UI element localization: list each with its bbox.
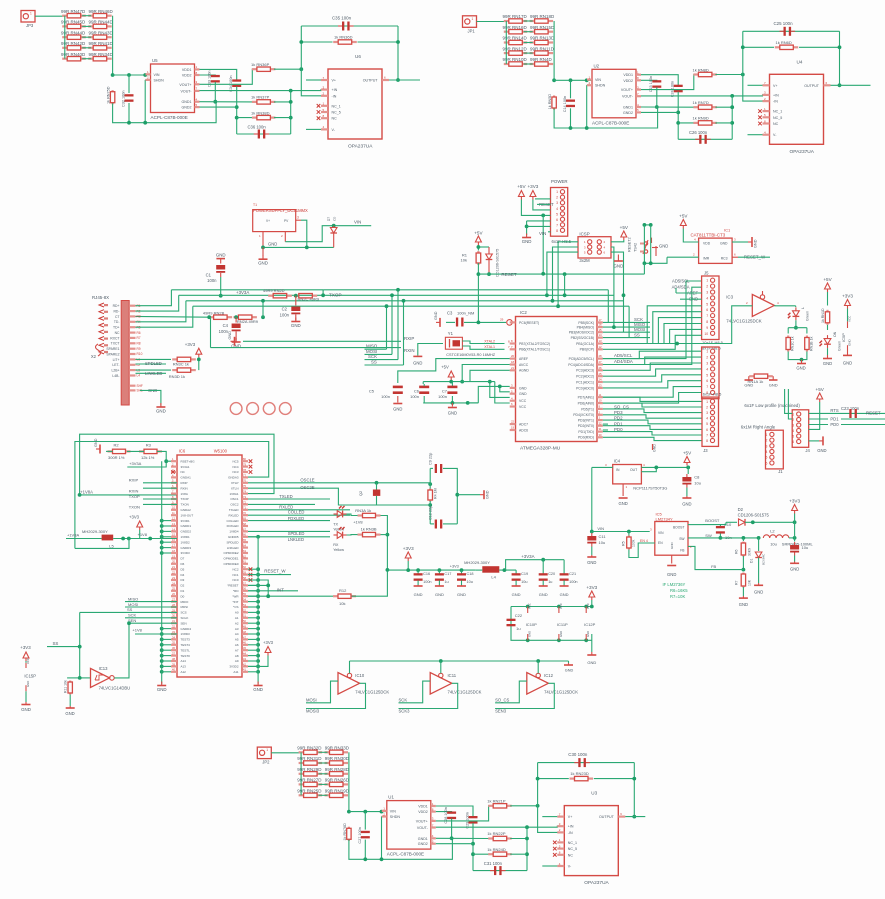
svg-text:VDD2: VDD2: [182, 74, 192, 78]
svg-text:C16: C16: [423, 572, 430, 576]
svg-text:GND: GND: [512, 592, 521, 597]
svg-text:GND: GND: [823, 361, 832, 366]
svg-text:12k 1%: 12k 1%: [141, 455, 155, 460]
svg-text:ACPL-C87B-000E: ACPL-C87B-000E: [151, 115, 188, 120]
svg-text:1k RN5D: 1k RN5D: [548, 94, 552, 110]
svg-text:XTAL2: XTAL2: [484, 339, 495, 343]
svg-text:GND2: GND2: [182, 106, 192, 110]
svg-text:PD1: PD1: [830, 416, 839, 421]
svg-text:VDD2: VDD2: [418, 810, 428, 814]
svg-text:GND: GND: [670, 542, 674, 550]
svg-text:D1: D1: [181, 589, 185, 593]
svg-text:GND: GND: [565, 669, 574, 673]
svg-text:IC5P: IC5P: [841, 333, 846, 342]
svg-text:OUT: OUT: [630, 468, 637, 472]
svg-text:NC5: NC5: [232, 459, 238, 463]
svg-text:GND: GND: [228, 331, 232, 340]
svg-text:PC5(ADC5/SCL): PC5(ADC5/SCL): [569, 357, 594, 361]
svg-text:3: 3: [706, 362, 708, 366]
svg-text:3: 3: [297, 216, 299, 220]
svg-text:RX: RX: [333, 543, 339, 547]
svg-text:BOOST: BOOST: [673, 526, 685, 530]
svg-text:20: 20: [511, 354, 515, 358]
svg-text:+1V8: +1V8: [353, 520, 363, 525]
svg-text:A7: A7: [235, 648, 239, 652]
svg-text:1k RN76D: 1k RN76D: [343, 823, 347, 841]
svg-text:1k RN3B: 1k RN3B: [361, 527, 377, 532]
svg-text:GND: GND: [560, 592, 569, 597]
svg-text:27: 27: [599, 360, 603, 364]
svg-text:24: 24: [599, 378, 603, 382]
svg-text:C5: C5: [369, 389, 375, 394]
svg-text:+3V3: +3V3: [789, 499, 800, 504]
svg-text:GND: GND: [682, 502, 691, 507]
svg-text:GND: GND: [586, 631, 590, 637]
svg-text:7: 7: [706, 314, 708, 318]
svg-text:14: 14: [599, 333, 603, 337]
svg-text:OPA237UA: OPA237UA: [348, 144, 373, 150]
svg-text:SCS: SCS: [181, 611, 187, 615]
svg-text:SCK3: SCK3: [399, 709, 411, 714]
svg-text:R2: R2: [114, 443, 120, 448]
svg-text:CSTCE16M0V53-R0 16MHZ: CSTCE16M0V53-R0 16MHZ: [446, 353, 495, 357]
svg-text:R10: R10: [137, 352, 143, 356]
svg-text:LM2734Y: LM2734Y: [656, 517, 673, 522]
svg-text:GND: GND: [156, 409, 166, 414]
svg-text:GND: GND: [614, 264, 624, 269]
svg-text:VIN: VIN: [539, 231, 546, 236]
svg-text:8: 8: [706, 439, 708, 443]
svg-text:+5V: +5V: [823, 277, 832, 282]
svg-text:COLLED: COLLED: [288, 510, 305, 515]
svg-text:SPARE1: SPARE1: [106, 347, 119, 351]
svg-text:6: 6: [706, 428, 708, 432]
svg-text:AREF: AREF: [519, 357, 528, 361]
svg-text:*INT: *INT: [233, 600, 239, 604]
svg-text:R5: R5: [622, 541, 626, 546]
svg-text:MDIO: MDIO: [181, 600, 189, 604]
svg-text:D7: D7: [327, 217, 331, 221]
svg-text:MH2029-300Y: MH2029-300Y: [464, 560, 490, 565]
svg-text:C20: C20: [548, 572, 555, 576]
svg-text:U3: U3: [591, 791, 597, 796]
svg-text:1: 1: [766, 433, 768, 437]
svg-text:PC4(ADC4/SDA): PC4(ADC4/SDA): [568, 363, 594, 367]
svg-text:RD-: RD-: [113, 310, 119, 314]
svg-text:VIN: VIN: [597, 526, 604, 531]
svg-text:GNDD5: GNDD5: [228, 535, 239, 539]
svg-text:L4B-: L4B-: [112, 374, 119, 378]
svg-text:10k: 10k: [461, 258, 467, 263]
svg-text:D6: D6: [181, 562, 185, 566]
svg-text:OSC2E: OSC2E: [300, 485, 314, 490]
svg-text:PD1(TXD): PD1(TXD): [578, 430, 594, 434]
svg-text:OPA237UA: OPA237UA: [790, 149, 815, 155]
svg-text:49R9 RN2D: 49R9 RN2D: [263, 288, 285, 293]
svg-text:PB6(XTAL1/TOSC1): PB6(XTAL1/TOSC1): [519, 348, 550, 352]
svg-text:C11: C11: [599, 534, 607, 539]
svg-text:IC3: IC3: [726, 295, 733, 300]
svg-text:PD2: PD2: [614, 416, 623, 421]
svg-text:R8: R8: [137, 342, 141, 346]
svg-text:GND: GND: [667, 572, 676, 577]
svg-text:TXOP: TXOP: [129, 494, 140, 499]
svg-text:GND: GND: [519, 392, 527, 396]
svg-text:100k: 100k: [632, 539, 636, 547]
svg-text:NC: NC: [332, 117, 338, 121]
svg-text:+5V: +5V: [474, 231, 483, 236]
svg-text:D2: D2: [738, 507, 744, 512]
svg-text:J3: J3: [703, 448, 708, 453]
svg-text:GND: GND: [587, 660, 596, 665]
svg-text:VOUT-: VOUT-: [181, 89, 193, 93]
svg-text:SS: SS: [634, 332, 640, 337]
svg-text:6x1F-H8.5: 6x1F-H8.5: [703, 392, 722, 397]
svg-text:POWERSUPPLY_DC21MMX: POWERSUPPLY_DC21MMX: [253, 208, 308, 213]
svg-text:5: 5: [792, 435, 794, 439]
svg-text:2: 2: [556, 196, 558, 200]
svg-text:C7: C7: [442, 389, 448, 394]
svg-text:GND: GND: [486, 490, 490, 499]
svg-text:GND1: GND1: [182, 100, 192, 104]
svg-text:RN1C 1k: RN1C 1k: [791, 336, 795, 351]
svg-text:FDXLED: FDXLED: [227, 524, 240, 528]
svg-text:5: 5: [556, 212, 558, 216]
svg-text:RESET2: RESET2: [628, 237, 632, 252]
svg-text:IC10: IC10: [355, 673, 365, 678]
svg-text:NC_5: NC_5: [332, 111, 341, 115]
svg-text:+3V3A: +3V3A: [236, 290, 249, 295]
svg-text:1k RN7D: 1k RN7D: [693, 100, 709, 105]
svg-text:10: 10: [704, 332, 708, 336]
svg-text:GND: GND: [528, 631, 532, 637]
svg-text:3: 3: [706, 411, 708, 415]
svg-text:TXON: TXON: [129, 505, 140, 510]
svg-text:VCC: VCC: [528, 603, 532, 609]
svg-text:D5: D5: [181, 567, 185, 571]
svg-text:3x2M: 3x2M: [579, 258, 590, 263]
svg-text:RD+: RD+: [113, 304, 120, 308]
svg-text:D1: D1: [750, 559, 754, 563]
svg-text:11: 11: [599, 393, 602, 397]
svg-text:RN3A 1k: RN3A 1k: [355, 508, 371, 513]
svg-text:MISO: MISO: [128, 596, 138, 601]
svg-text:SW: SW: [679, 537, 685, 541]
svg-text:SEN: SEN: [181, 621, 187, 625]
svg-text:C22: C22: [515, 613, 523, 618]
svg-text:74LVC1G125DCK: 74LVC1G125DCK: [355, 690, 389, 695]
svg-text:PD1: PD1: [614, 421, 623, 426]
svg-text:SW: SW: [705, 533, 712, 538]
svg-text:GND: GND: [157, 687, 167, 692]
svg-text:TEST4: TEST4: [181, 643, 191, 647]
svg-text:A13: A13: [181, 665, 187, 669]
svg-text:1k RN75D: 1k RN75D: [107, 86, 111, 104]
svg-text:NC: NC: [568, 853, 574, 857]
svg-text:RESET: RESET: [501, 272, 517, 277]
svg-text:RXLED: RXLED: [228, 513, 239, 517]
svg-text:RN3D 1k: RN3D 1k: [169, 374, 185, 379]
svg-text:R7: R7: [735, 580, 739, 585]
svg-text:R11 10k: R11 10k: [64, 680, 68, 693]
svg-text:R9: R9: [137, 347, 141, 351]
svg-text:GND: GND: [754, 239, 758, 248]
svg-text:L2B+: L2B+: [111, 369, 119, 373]
svg-text:NC_1: NC_1: [773, 110, 782, 114]
svg-text:ATMEGA328P-MU: ATMEGA328P-MU: [520, 446, 561, 452]
svg-text:10u: 10u: [694, 481, 701, 486]
svg-text:U2: U2: [594, 63, 600, 68]
svg-text:OUTPUT: OUTPUT: [363, 79, 379, 83]
svg-text:PB1(OC1A): PB1(OC1A): [576, 342, 594, 346]
svg-text:PD2(INT0): PD2(INT0): [578, 424, 594, 428]
svg-text:1k RN22P: 1k RN22P: [487, 831, 506, 836]
svg-text:D7: D7: [181, 557, 185, 561]
svg-text:L4: L4: [137, 374, 141, 378]
svg-text:J4: J4: [805, 448, 810, 453]
svg-text:32: 32: [599, 421, 603, 425]
svg-text:VCC: VCC: [586, 603, 590, 609]
svg-text:1V8D2: 1V8D2: [181, 540, 191, 544]
svg-text:+3V3: +3V3: [129, 515, 140, 520]
svg-text:10u: 10u: [599, 540, 606, 545]
svg-text:AD5/SCL: AD5/SCL: [672, 279, 690, 284]
svg-text:1k RN8D: 1k RN8D: [693, 67, 709, 72]
svg-text:-IN: -IN: [568, 831, 573, 835]
svg-text:PD5(T1): PD5(T1): [581, 407, 594, 411]
svg-text:5: 5: [766, 456, 768, 460]
svg-text:XTLP: XTLP: [231, 481, 239, 485]
svg-text:7: 7: [706, 433, 708, 437]
svg-text:C25 100n: C25 100n: [774, 21, 794, 26]
svg-text:1k RN36P: 1k RN36P: [251, 62, 270, 67]
svg-text:GND2: GND2: [623, 111, 633, 115]
svg-text:RSET+BG: RSET+BG: [181, 459, 196, 463]
svg-text:2: 2: [706, 285, 708, 289]
svg-text:6x1M Right Angle: 6x1M Right Angle: [741, 425, 776, 430]
svg-text:+5V: +5V: [441, 365, 449, 370]
svg-text:Yellow: Yellow: [333, 548, 344, 552]
svg-text:16: 16: [599, 323, 603, 327]
svg-text:ADC7: ADC7: [519, 423, 528, 427]
svg-text:300R 1%: 300R 1%: [108, 455, 125, 460]
svg-text:10u: 10u: [770, 542, 777, 547]
svg-text:D2: D2: [181, 584, 185, 588]
svg-text:+IN: +IN: [773, 93, 779, 97]
svg-text:MH2029-300Y: MH2029-300Y: [82, 529, 108, 534]
svg-text:GND: GND: [790, 567, 799, 572]
svg-text:SEN3: SEN3: [495, 709, 507, 714]
svg-text:A6: A6: [235, 643, 239, 647]
svg-text:3V3A1: 3V3A1: [181, 465, 190, 469]
svg-text:1: 1: [30, 12, 32, 16]
svg-text:VCC: VCC: [559, 603, 563, 609]
svg-text:+5V: +5V: [816, 387, 825, 392]
svg-text:BZX84C: BZX84C: [762, 553, 766, 565]
svg-text:GNDD1: GNDD1: [181, 524, 192, 528]
svg-text:R6=16K5: R6=16K5: [670, 588, 688, 593]
svg-text:GND: GND: [754, 590, 763, 595]
svg-text:AGND: AGND: [519, 369, 529, 373]
svg-text:OSC1: OSC1: [230, 497, 239, 501]
svg-text:PC2(ADC2): PC2(ADC2): [576, 375, 594, 379]
svg-text:+5V: +5V: [620, 225, 629, 230]
svg-text:+3V3: +3V3: [450, 565, 459, 569]
svg-text:MOSI3: MOSI3: [306, 709, 320, 714]
svg-text:SS: SS: [127, 607, 133, 612]
svg-text:R6: R6: [137, 331, 141, 335]
svg-text:NC_1: NC_1: [568, 841, 577, 845]
svg-text:TD+: TD+: [113, 326, 120, 330]
svg-text:+3V3: +3V3: [20, 645, 31, 650]
svg-text:29: 29: [500, 318, 504, 322]
svg-text:15: 15: [599, 328, 603, 332]
svg-text:IC2: IC2: [520, 310, 527, 315]
svg-text:+5V: +5V: [679, 214, 688, 219]
svg-text:A3: A3: [235, 627, 239, 631]
svg-text:GND: GND: [522, 239, 532, 244]
svg-text:GND: GND: [739, 602, 748, 607]
svg-text:NC: NC: [115, 331, 120, 335]
svg-text:MOSI: MOSI: [306, 697, 317, 702]
svg-text:17: 17: [599, 318, 603, 322]
svg-text:19: 19: [511, 426, 515, 430]
svg-text:C17: C17: [444, 572, 451, 576]
svg-text:74LVC1G125DCK: 74LVC1G125DCK: [448, 690, 482, 695]
svg-text:ADC6: ADC6: [519, 428, 528, 432]
svg-text:NC4: NC4: [232, 465, 238, 469]
svg-text:R4 1M: R4 1M: [434, 488, 438, 499]
svg-text:MOSI: MOSI: [366, 349, 377, 354]
svg-text:IC13: IC13: [99, 666, 109, 671]
svg-text:1k RN9D: 1k RN9D: [693, 116, 709, 121]
svg-text:RXIN: RXIN: [129, 488, 139, 493]
svg-text:1k RN24D: 1k RN24D: [487, 847, 506, 852]
svg-text:1V8D4: 1V8D4: [229, 530, 239, 534]
svg-text:TEST0: TEST0: [181, 654, 191, 658]
svg-text:OPMODE2: OPMODE2: [223, 551, 238, 555]
svg-text:GND: GND: [393, 407, 402, 412]
svg-text:JP3: JP3: [26, 23, 34, 28]
svg-text:PD4(XCK/T0): PD4(XCK/T0): [573, 413, 594, 417]
svg-text:7: 7: [706, 385, 708, 389]
svg-text:1V8A: 1V8A: [181, 492, 188, 496]
svg-text:R12: R12: [339, 588, 347, 593]
svg-text:VDD1: VDD1: [182, 68, 192, 72]
svg-text:VOUT-: VOUT-: [417, 826, 429, 830]
svg-text:MDSI: MDSI: [181, 605, 189, 609]
svg-text:MOSI: MOSI: [128, 602, 138, 607]
svg-text:A9: A9: [235, 659, 239, 663]
svg-text:GNDA3: GNDA3: [228, 476, 239, 480]
svg-text:2: 2: [706, 356, 708, 360]
svg-text:SHDN: SHDN: [390, 815, 401, 819]
svg-text:V+: V+: [332, 79, 337, 83]
svg-text:26: 26: [599, 366, 603, 370]
svg-text:GND: GND: [216, 253, 226, 258]
svg-text:VOUT-: VOUT-: [622, 95, 634, 99]
svg-text:9: 9: [706, 326, 708, 330]
svg-text:EN: EN: [658, 541, 663, 545]
svg-text:+3V3: +3V3: [842, 294, 853, 299]
svg-text:VDD1: VDD1: [418, 805, 428, 809]
svg-text:IC6: IC6: [179, 449, 186, 454]
svg-text:SCK: SCK: [399, 697, 408, 702]
svg-text:22: 22: [511, 420, 515, 424]
svg-text:VCC: VCC: [848, 315, 852, 322]
svg-text:5: 5: [706, 422, 708, 426]
svg-text:RN2C 49R9: RN2C 49R9: [298, 297, 320, 302]
svg-text:BOOST: BOOST: [705, 518, 720, 523]
svg-text:A4: A4: [235, 632, 239, 636]
svg-text:+1V8: +1V8: [138, 532, 148, 537]
svg-text:C3: C3: [447, 311, 453, 316]
svg-text:C30 100n: C30 100n: [568, 752, 588, 757]
svg-text:TXOP: TXOP: [181, 497, 189, 501]
svg-text:SS: SS: [371, 360, 377, 365]
svg-text:1k RN38D: 1k RN38D: [251, 110, 270, 115]
svg-text:CT: CT: [115, 315, 120, 319]
svg-text:*RESET: *RESET: [227, 584, 238, 588]
svg-text:GND: GND: [720, 242, 728, 246]
svg-text:PD7(AIN1): PD7(AIN1): [578, 396, 594, 400]
svg-text:C27 100n: C27 100n: [358, 827, 362, 843]
svg-text:NCP1117ST50T3G: NCP1117ST50T3G: [633, 486, 667, 491]
svg-text:Q2: Q2: [359, 491, 363, 496]
svg-text:INT: INT: [277, 588, 284, 593]
svg-text:+1V8A: +1V8A: [80, 489, 93, 494]
svg-text:GND1: GND1: [623, 106, 633, 110]
svg-text:RTS: RTS: [830, 408, 839, 413]
svg-text:A12: A12: [181, 670, 187, 674]
svg-text:SPDLED: SPDLED: [226, 540, 239, 544]
svg-text:GND: GND: [817, 448, 826, 453]
svg-text:U4: U4: [797, 59, 803, 64]
svg-text:RXIP: RXIP: [181, 481, 188, 485]
svg-text:RESET: RESET: [866, 411, 881, 416]
svg-text:10x1F-H8.5: 10x1F-H8.5: [702, 340, 724, 345]
svg-text:Green: Green: [806, 311, 810, 321]
svg-text:PD0: PD0: [614, 427, 623, 432]
svg-text:C12 22p: C12 22p: [429, 506, 433, 520]
svg-text:30K9: 30K9: [748, 548, 752, 556]
svg-text:LNKLED: LNKLED: [288, 537, 304, 542]
svg-text:FB: FB: [711, 564, 716, 569]
svg-text:IC15P: IC15P: [24, 674, 36, 679]
svg-text:GNDD4: GNDD4: [181, 627, 192, 631]
svg-text:SO_CS: SO_CS: [614, 404, 629, 409]
svg-text:RXCT: RXCT: [110, 336, 119, 340]
svg-text:AD4/SDA: AD4/SDA: [614, 359, 633, 364]
svg-text:C14 100n: C14 100n: [563, 96, 567, 112]
svg-text:1u: 1u: [516, 626, 520, 631]
svg-text:2: 2: [766, 439, 768, 443]
svg-text:OPMODE1: OPMODE1: [223, 557, 238, 561]
svg-text:+3V3A: +3V3A: [521, 554, 534, 559]
svg-text:NC3: NC3: [232, 470, 238, 474]
svg-text:TXCT: TXCT: [111, 342, 120, 346]
svg-text:SCK: SCK: [128, 613, 137, 618]
svg-text:23: 23: [599, 384, 603, 388]
svg-text:1: 1: [556, 190, 558, 194]
svg-text:PC1(ADC1): PC1(ADC1): [576, 380, 594, 384]
svg-text:+3V3: +3V3: [527, 184, 538, 189]
svg-text:GND: GND: [21, 707, 31, 712]
svg-text:VCC: VCC: [26, 658, 30, 664]
svg-text:GND: GND: [539, 592, 548, 597]
svg-text:V+: V+: [773, 84, 778, 88]
svg-text:GND: GND: [843, 361, 852, 366]
